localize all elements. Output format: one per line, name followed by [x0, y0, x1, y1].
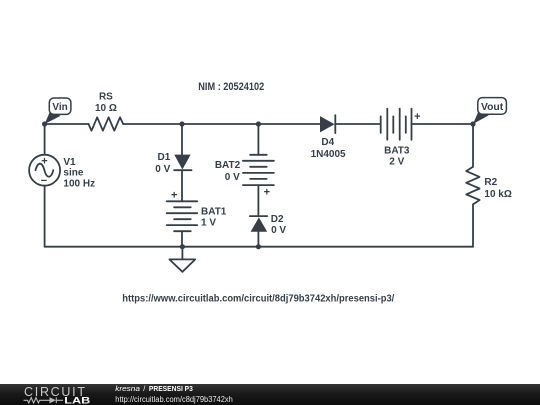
- wire: Vin node down to V1: [44, 124, 46, 155]
- wire: BAT3 to Vout node: [412, 123, 474, 125]
- battery BAT1 plates: [167, 200, 198, 202]
- svg-text:100 Hz: 100 Hz: [63, 179, 95, 190]
- Vin label box: [49, 98, 71, 114]
- svg-text:1 V: 1 V: [201, 218, 216, 229]
- node dot Vout: [470, 121, 475, 126]
- ground stub: [181, 247, 183, 260]
- ground triangle: [169, 259, 195, 271]
- svg-text:R2: R2: [484, 177, 497, 188]
- svg-text:2 V: 2 V: [389, 157, 404, 168]
- svg-text:1N4005: 1N4005: [311, 149, 346, 160]
- wire: RS to D4: [123, 123, 320, 125]
- svg-text:10 kΩ: 10 kΩ: [484, 189, 511, 200]
- wire: top node down to D1: [181, 124, 183, 155]
- diode D2 triangle: [251, 217, 268, 231]
- diode D2 cathode bar: [250, 215, 267, 217]
- svg-text:RS: RS: [99, 91, 113, 102]
- node dot Vin: [42, 121, 47, 126]
- node dot at D1 branch: [179, 121, 184, 126]
- svg-text:V1: V1: [63, 157, 76, 168]
- node dot at BAT2 branch: [256, 121, 261, 126]
- diode D4 cathode bar: [334, 115, 336, 133]
- wire: top node down to BAT2: [257, 124, 259, 155]
- footer bar: [0, 384, 540, 405]
- svg-text:+: +: [171, 190, 177, 202]
- svg-text:BAT2: BAT2: [215, 160, 241, 171]
- svg-text:sine: sine: [63, 168, 83, 179]
- svg-text:+: +: [41, 156, 47, 168]
- battery BAT3 plates: [380, 116, 382, 132]
- node dot ground: [180, 244, 185, 249]
- svg-text:BAT1: BAT1: [201, 207, 227, 218]
- logo wire with resistor and diode: [24, 397, 64, 403]
- wire top: Vin node to RS: [45, 123, 89, 125]
- svg-text:D1: D1: [158, 152, 171, 163]
- svg-text:Vin: Vin: [52, 102, 67, 113]
- svg-text:+: +: [264, 186, 270, 198]
- svg-text:D4: D4: [321, 137, 334, 148]
- resistor R2: [466, 167, 479, 205]
- svg-text:10 Ω: 10 Ω: [95, 103, 117, 114]
- svg-text:+: +: [414, 111, 420, 123]
- svg-text:LAB: LAB: [64, 395, 90, 405]
- battery BAT2 plates: [250, 154, 267, 156]
- wire: D2 to bottom rail: [257, 232, 259, 247]
- svg-text:BAT3: BAT3: [384, 146, 410, 157]
- svg-text:kresna: kresna: [115, 384, 140, 393]
- wire: D4 to BAT3: [335, 123, 380, 125]
- wire: BAT2 to D2: [257, 185, 259, 216]
- Vout label box: [478, 98, 507, 115]
- svg-text:0 V: 0 V: [271, 225, 286, 236]
- svg-text:NIM : 20524102: NIM : 20524102: [198, 81, 264, 93]
- diode D1 cathode bar: [174, 169, 191, 171]
- diode D4 triangle: [320, 116, 335, 132]
- logo diode triangle: [50, 397, 57, 403]
- wire: BAT1 to bottom rail: [181, 231, 183, 247]
- svg-text:0 V: 0 V: [155, 164, 170, 175]
- Vin label tail: [45, 111, 61, 124]
- svg-text:D2: D2: [271, 214, 284, 225]
- svg-text:http://circuitlab.com/c8dj79b3: http://circuitlab.com/c8dj79b3742xh: [115, 395, 233, 404]
- bottom rail wire: [45, 246, 473, 248]
- wire: Vout node down to R2: [472, 124, 474, 167]
- V1 sine wave: [36, 164, 54, 177]
- wire: D1 to BAT1: [181, 170, 183, 201]
- svg-text:Vout: Vout: [481, 102, 504, 113]
- diode D1 triangle: [174, 155, 190, 170]
- Vout label tail: [473, 110, 489, 124]
- voltage source V1 circle: [29, 155, 60, 186]
- wire: R2 to bottom rail: [472, 204, 474, 246]
- resistor RS: [89, 117, 124, 130]
- svg-text:−: −: [41, 175, 47, 187]
- svg-text:https://www.circuitlab.com/cir: https://www.circuitlab.com/circuit/8dj79…: [122, 294, 394, 305]
- wire: V1 to bottom rail: [44, 186, 46, 247]
- svg-text:0 V: 0 V: [225, 172, 240, 183]
- svg-text:PRESENSI P3: PRESENSI P3: [149, 384, 193, 393]
- node dot D2 bottom: [256, 244, 261, 249]
